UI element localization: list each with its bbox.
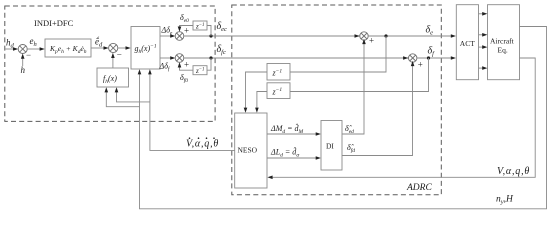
wire Aircraft out A (ny,H loop) [140,27,547,209]
wire JA out to right rail [184,35,361,37]
summer JB [175,54,184,63]
svg-text:ΔMd = d̂M: ΔMd = d̂M [270,122,304,134]
summer JA [175,32,184,41]
wire g_h out bottom (delta delta_f) [160,57,172,59]
svg-text:INDI+DFC: INDI+DFC [34,18,74,28]
block NESO [235,113,267,188]
svg-text:ADRC: ADRC [406,183,432,193]
wire branch to f_h input 2 [117,90,150,102]
svg-text:ACT: ACT [460,39,475,48]
wire node down to z-1 B [207,58,211,70]
svg-text:h: h [21,65,26,75]
wire z-1 A to JA top [180,26,194,29]
block z-1 A [193,21,207,30]
svg-text:V,α,q,θ: V,α,q,θ [497,166,530,177]
wire NESO out dL [267,157,318,159]
node after JB [209,56,212,59]
summer J2 [109,43,118,52]
svg-text:Aircraft: Aircraft [490,37,515,46]
wire J1 out to ACT [368,35,453,37]
wire sample down to z-1 #2 [290,58,429,92]
wire branch to f_h input 1 [106,90,139,107]
dashed box INDI+DFC [5,6,215,121]
wire JB out to right rail [184,57,410,59]
wire h feedback stub [22,57,24,67]
wire f_h to J2 [112,56,114,68]
wire J2 to g_h [118,47,128,49]
wire g_h out top (delta delta_e) [160,35,172,37]
block ACT [456,5,478,80]
wire e_h [27,48,41,50]
svg-text:ny,H: ny,H [496,195,514,206]
block z-1 #1 [267,64,290,81]
block Aircraft Eq [488,5,520,80]
node delta_f sample [427,56,430,59]
node delta_e sample [384,34,387,37]
wire J2 out to ACT [417,57,453,59]
svg-text:+: + [184,60,189,70]
wire z-1 #1 to NESO [246,72,268,110]
svg-text:−: − [117,50,122,60]
svg-text:+: + [184,26,189,36]
block g_h(x)^-1 [131,27,160,70]
wire z-1 B to JB bottom [180,65,194,70]
svg-text:DI: DI [326,142,334,151]
summer ADRC J1 [355,34,360,38]
wire NESO left out (Vdot line) to g_h [150,72,235,150]
wire NESO out dM [267,133,318,135]
block K_p e_h + K_d e_h [45,39,91,57]
wire sample down to z-1 #1 [290,36,386,72]
wire hdot_d [91,47,106,49]
wire Aircraft out B (V,a,q,theta loop) [271,58,536,177]
block DI [321,121,342,171]
summer ADRC J2 [403,56,408,60]
svg-text:+: + [418,60,423,70]
svg-text:ΔLd = d̂α: ΔLd = d̂α [270,146,299,158]
svg-text:NESO: NESO [238,146,258,155]
wire DI out bottom (delta_fd hat) up to J2 [342,64,413,156]
summer J1 [18,45,27,54]
svg-text:Eq.: Eq. [498,46,508,55]
wire h_d input [6,48,16,50]
wire node up to z-1 A [207,26,211,37]
svg-text:−: − [26,50,31,60]
svg-text:V,α,q,θ: V,α,q,θ [186,139,219,150]
wire z-1 #2 to NESO [257,92,267,110]
block z-1 #2 [267,83,290,99]
block z-1 B [193,66,207,75]
block f_h(x) [97,68,129,87]
wires ACT to Aircraft (4 arrows) [479,13,485,15]
node after JA [209,34,212,37]
svg-text:+: + [369,36,374,46]
dashed box ADRC [232,5,441,195]
wire DI out top (delta_ed hat) up to J1 [342,42,364,135]
